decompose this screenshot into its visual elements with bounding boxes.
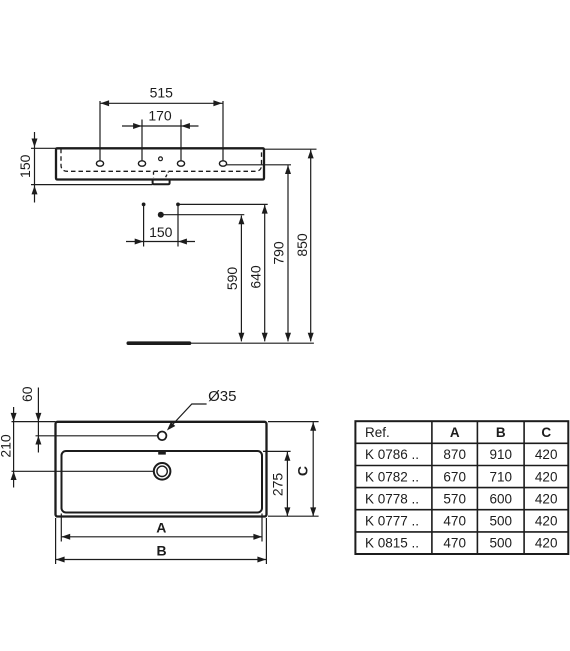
waste hole outer (top view) bbox=[154, 463, 171, 480]
svg-text:420: 420 bbox=[535, 514, 558, 529]
sump dashed walls (side view) bbox=[153, 172, 155, 177]
svg-text:K 0778 ..: K 0778 .. bbox=[365, 492, 419, 507]
svg-text:A: A bbox=[450, 425, 460, 440]
svg-text:Ø35: Ø35 bbox=[208, 388, 236, 405]
overflow hole (side view) bbox=[159, 157, 163, 161]
svg-text:150: 150 bbox=[149, 224, 173, 240]
dimension 275 bbox=[270, 452, 291, 516]
svg-text:420: 420 bbox=[535, 536, 558, 551]
level line from fixing dot (640) bbox=[178, 203, 268, 205]
svg-text:500: 500 bbox=[490, 514, 513, 529]
overflow slot (top view) bbox=[158, 452, 166, 455]
dimension 150 fixing holes bbox=[126, 204, 195, 246]
dimension 590 bbox=[224, 216, 244, 342]
svg-text:500: 500 bbox=[490, 536, 513, 551]
dimension A bbox=[61, 514, 262, 542]
extension line hole3 bbox=[180, 120, 182, 161]
svg-text:Ref.: Ref. bbox=[365, 425, 390, 440]
bowl top view inner rect bbox=[62, 451, 263, 513]
svg-text:470: 470 bbox=[443, 514, 466, 529]
svg-text:590: 590 bbox=[224, 267, 240, 291]
svg-text:515: 515 bbox=[150, 85, 174, 101]
wall fixing dot right bbox=[176, 203, 180, 207]
svg-text:870: 870 bbox=[443, 447, 466, 462]
bowl inner dashed outline (side view) bbox=[61, 149, 262, 172]
waste hole inner (top view) bbox=[157, 466, 167, 476]
extension line bottom right (275/C) bbox=[268, 515, 319, 517]
svg-text:C: C bbox=[541, 425, 551, 440]
extension line bowl edge right (275) bbox=[263, 450, 291, 452]
washbasin side view outline bbox=[56, 148, 264, 179]
dimension 790 bbox=[270, 165, 291, 341]
svg-text:K 0815 ..: K 0815 .. bbox=[365, 536, 419, 551]
dimension B bbox=[56, 518, 267, 564]
dimension 60 bbox=[19, 386, 42, 452]
svg-text:K 0786 ..: K 0786 .. bbox=[365, 447, 419, 462]
extension line hole1 bbox=[99, 101, 101, 161]
extension line hole2 bbox=[141, 120, 143, 161]
tap hole 2 (side view) bbox=[138, 161, 145, 166]
level line from siphon dot (590) bbox=[161, 214, 245, 216]
extension line tap hole (60) bbox=[36, 435, 158, 437]
tap hole 3 (side view) bbox=[177, 161, 184, 166]
svg-text:K 0782 ..: K 0782 .. bbox=[365, 469, 419, 484]
svg-text:570: 570 bbox=[443, 492, 466, 507]
svg-text:C: C bbox=[295, 466, 311, 476]
extension line hole4 bbox=[222, 101, 224, 161]
svg-text:420: 420 bbox=[535, 469, 558, 484]
extension line top edge left bbox=[12, 421, 56, 423]
dimension 515 bbox=[100, 85, 223, 107]
svg-text:640: 640 bbox=[248, 265, 264, 289]
wall fixing dot left bbox=[142, 203, 146, 207]
svg-text:K 0777 ..: K 0777 .. bbox=[365, 514, 419, 529]
svg-text:B: B bbox=[496, 425, 506, 440]
dimension 210 bbox=[0, 407, 17, 488]
extension line tap deck (790) bbox=[227, 164, 291, 166]
dimension 850 bbox=[294, 150, 314, 342]
svg-text:910: 910 bbox=[490, 447, 513, 462]
svg-text:420: 420 bbox=[535, 447, 558, 462]
svg-text:600: 600 bbox=[490, 492, 513, 507]
extension line top edge right (C) bbox=[268, 421, 319, 423]
tap hole (top view) bbox=[158, 432, 167, 441]
dimension 170 bbox=[122, 107, 199, 129]
extension line rim top right (850) bbox=[264, 148, 317, 150]
svg-text:470: 470 bbox=[443, 536, 466, 551]
dimension 150 apron height (left) bbox=[17, 132, 152, 203]
tap hole 1 (side view) bbox=[96, 161, 103, 166]
svg-text:710: 710 bbox=[490, 469, 513, 484]
svg-text:210: 210 bbox=[0, 434, 14, 458]
label diameter 35 with leader bbox=[167, 388, 237, 431]
svg-text:B: B bbox=[156, 542, 166, 558]
basin top view outer rect bbox=[56, 422, 267, 517]
dimension 640 bbox=[248, 205, 268, 342]
tap hole 4 (side view) bbox=[219, 161, 226, 166]
floor line bbox=[128, 341, 189, 345]
siphon dot bbox=[158, 212, 164, 218]
dimension C bbox=[295, 422, 317, 516]
svg-text:850: 850 bbox=[294, 233, 310, 257]
svg-text:150: 150 bbox=[17, 154, 33, 178]
svg-text:60: 60 bbox=[19, 386, 35, 402]
extension line waste centre (210) bbox=[12, 470, 154, 472]
svg-text:670: 670 bbox=[443, 469, 466, 484]
svg-text:790: 790 bbox=[270, 241, 286, 265]
svg-text:170: 170 bbox=[148, 107, 172, 123]
svg-text:275: 275 bbox=[270, 473, 286, 497]
waste outlet (side view) bbox=[153, 179, 170, 184]
reference table bbox=[355, 421, 568, 554]
svg-text:420: 420 bbox=[535, 492, 558, 507]
svg-text:A: A bbox=[156, 519, 166, 535]
